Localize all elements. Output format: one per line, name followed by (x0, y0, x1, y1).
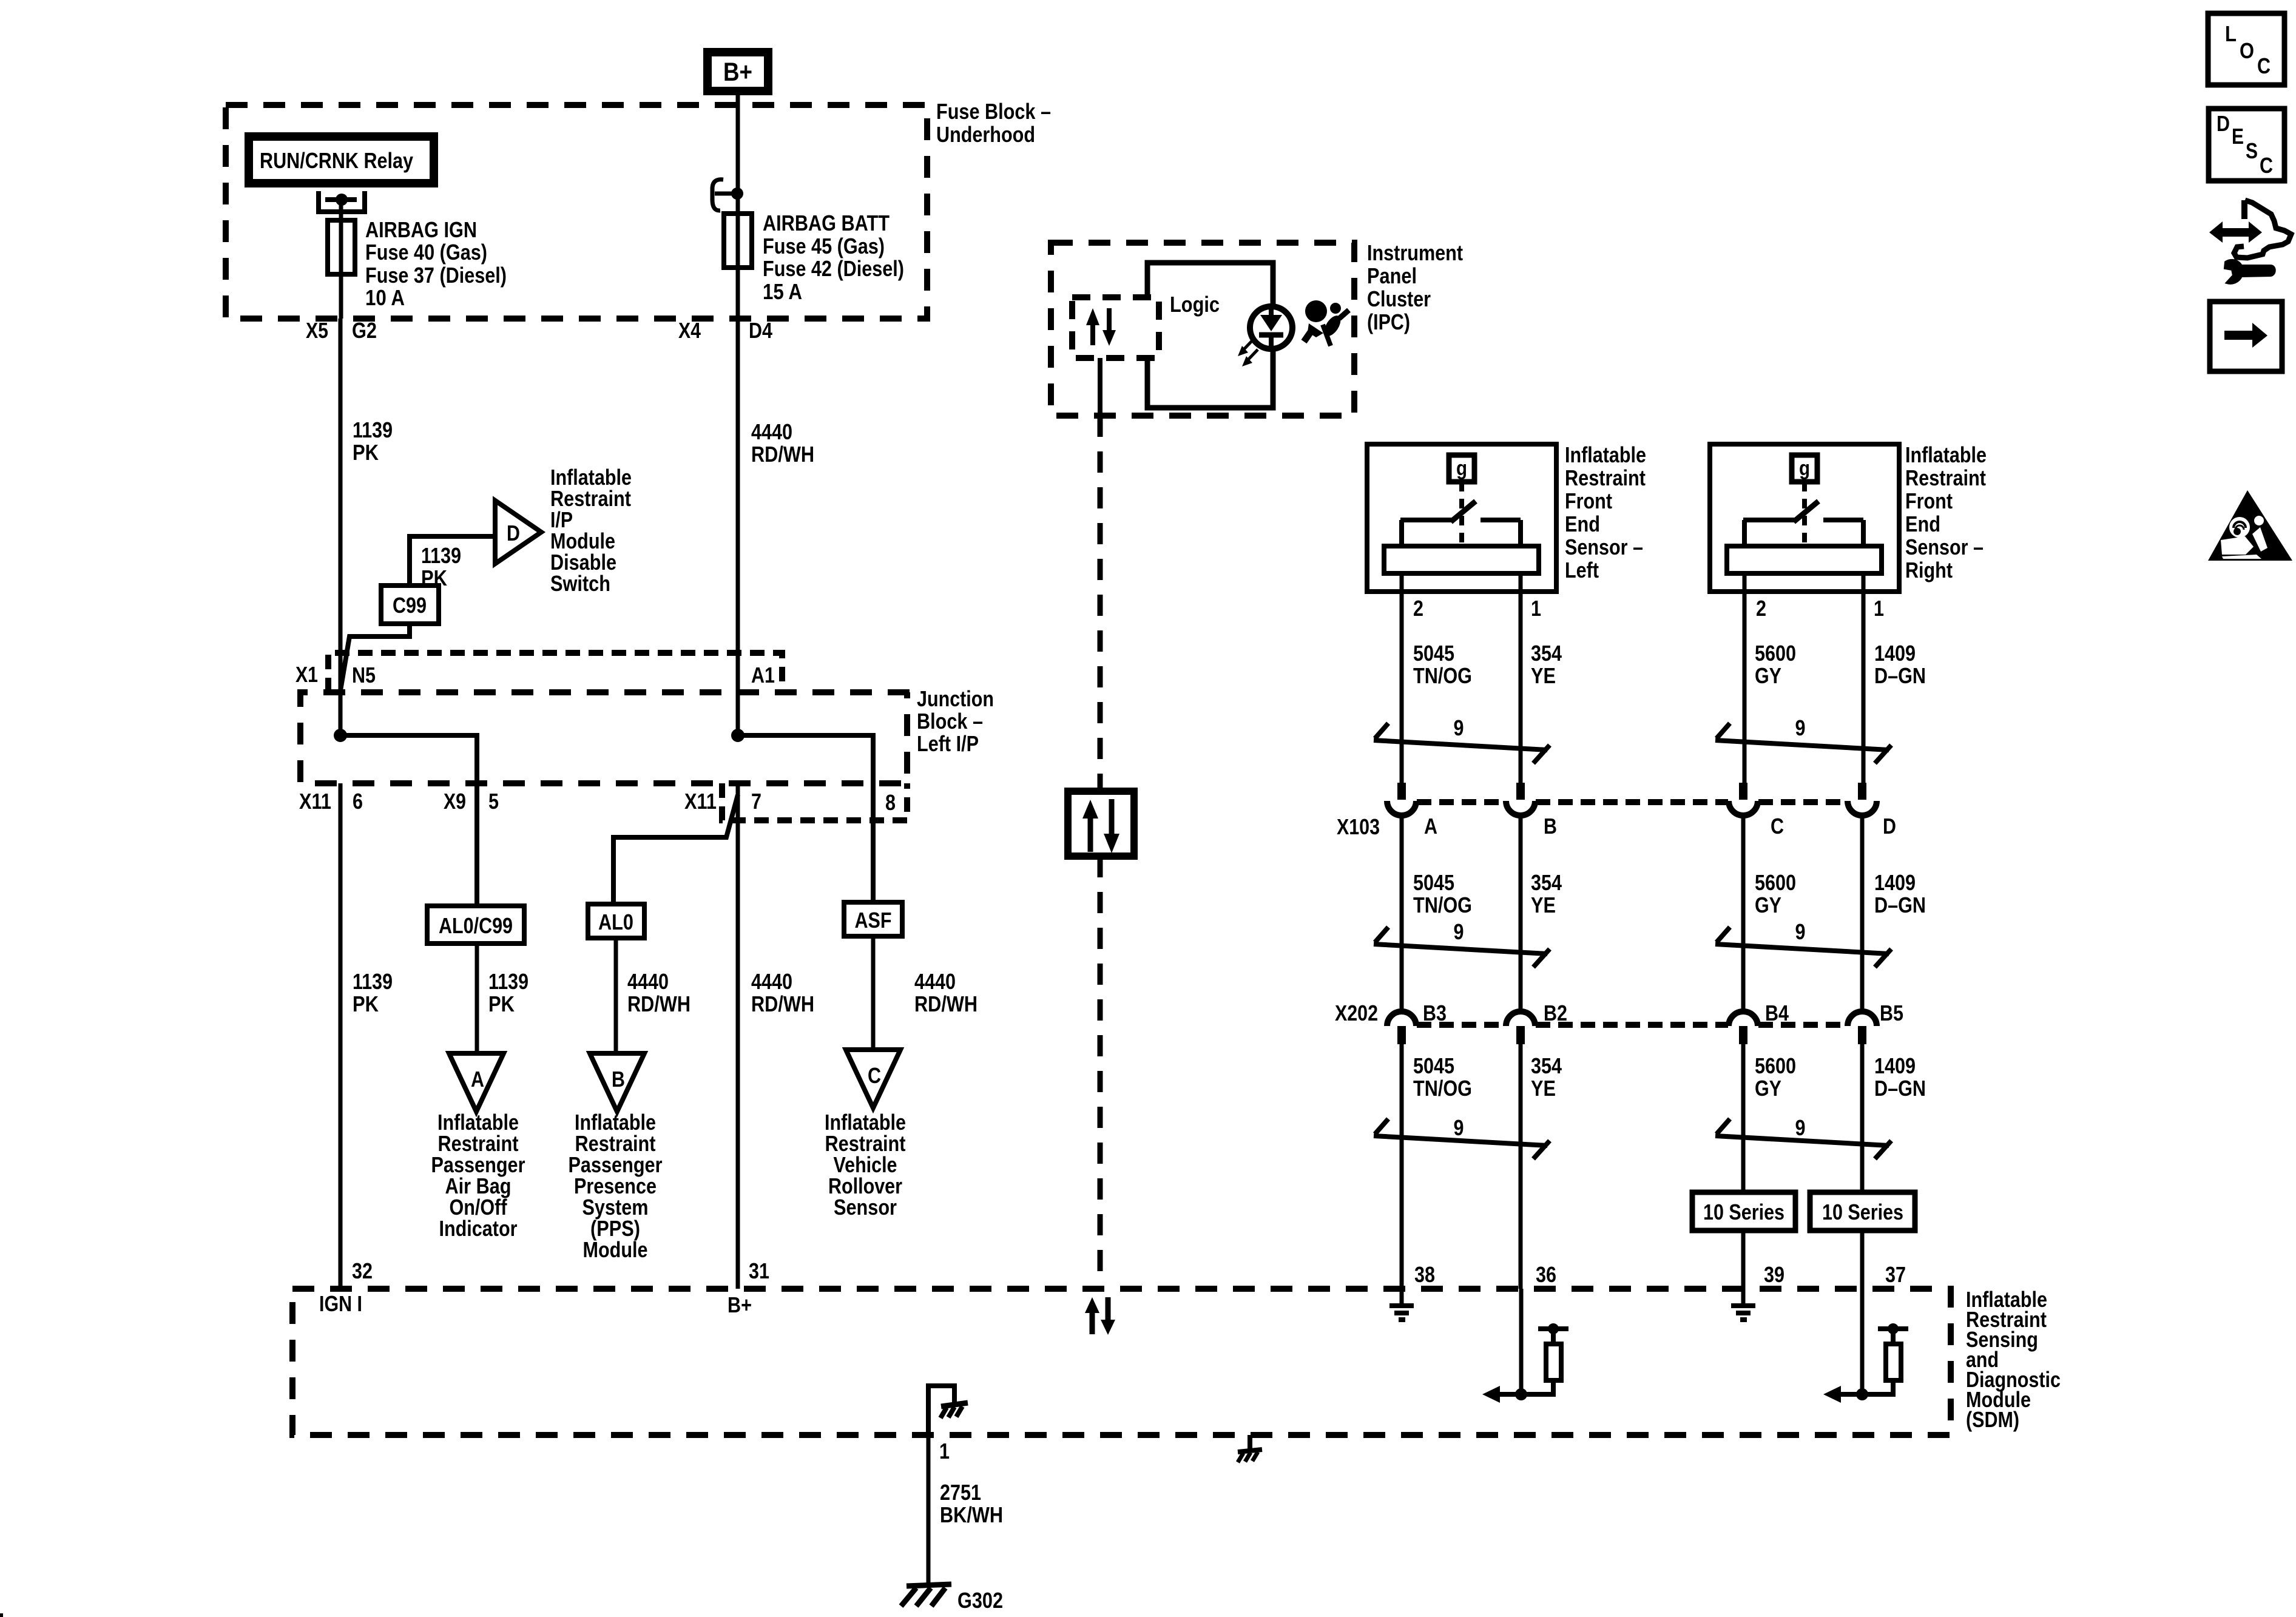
serial data connector dashed box in IPC (1072, 297, 1159, 358)
logic box (1147, 263, 1273, 408)
svg-text:Fuse 40 (Gas): Fuse 40 (Gas) (365, 240, 487, 265)
wire: fuse to connector X4 D4 (736, 268, 740, 319)
svg-text:D: D (507, 521, 520, 545)
svg-text:C: C (2257, 53, 2271, 78)
svg-text:B4: B4 (1765, 1001, 1789, 1025)
svg-text:9: 9 (1795, 1115, 1806, 1140)
svg-text:E: E (2232, 124, 2244, 149)
wire 1409 D-GN to 10 Series connector (1860, 1043, 1865, 1192)
icon LOC box (2208, 13, 2284, 85)
wire: relay output down to fuse (339, 200, 343, 223)
LED light emission arrows (1241, 339, 1254, 353)
svg-text:X11: X11 (684, 789, 717, 814)
svg-text:GY: GY (1755, 1076, 1781, 1101)
connector triangle C (846, 1050, 900, 1108)
relay RUN/CRNK output contact symbol (319, 191, 365, 212)
svg-text:ASF: ASF (855, 908, 892, 933)
svg-text:D: D (2217, 111, 2230, 136)
svg-text:4440: 4440 (751, 969, 792, 994)
svg-text:Right: Right (1905, 558, 1953, 582)
svg-text:RUN/CRNK Relay: RUN/CRNK Relay (260, 148, 413, 173)
svg-text:5045: 5045 (1413, 1053, 1454, 1078)
svg-text:X1: X1 (295, 662, 318, 687)
wire: AL0 to triangle B (614, 938, 618, 1053)
LED airbag indicator (1250, 306, 1292, 349)
svg-text:L: L (2225, 21, 2237, 46)
svg-text:2751: 2751 (940, 1480, 981, 1505)
node: junction dot left (334, 729, 347, 742)
svg-text:Sensor: Sensor (834, 1195, 897, 1220)
wire 1409 D-GN to SDM pin 37 (1860, 1230, 1865, 1289)
svg-text:A: A (1424, 814, 1437, 839)
10 Series connector box right (1810, 1192, 1915, 1230)
svg-text:C99: C99 (393, 593, 427, 618)
fuse block underhood dashed box (226, 105, 927, 319)
connector X202 pin B3 (1387, 1011, 1416, 1026)
svg-text:B+: B+ (723, 58, 752, 87)
svg-text:C: C (2260, 153, 2273, 178)
sensor left dashed actuator link (1459, 482, 1464, 546)
wire: C99 down to main wire diagonal (340, 624, 410, 690)
svg-text:Restraint: Restraint (1905, 465, 1986, 490)
svg-text:B+: B+ (728, 1292, 752, 1317)
svg-text:AIRBAG BATT: AIRBAG BATT (763, 211, 890, 235)
svg-text:Junction: Junction (917, 686, 994, 711)
icon harness diagnostic: double arrow (2209, 221, 2262, 243)
svg-text:G302: G302 (957, 1588, 1003, 1613)
wire: fuse to connector X5 G2 (339, 220, 343, 319)
svg-text:5600: 5600 (1755, 870, 1796, 895)
connector AL0 box (588, 904, 644, 938)
svg-text:5: 5 (488, 789, 499, 814)
wire: disable switch branch horizontal (410, 536, 495, 586)
svg-text:g: g (1799, 457, 1810, 480)
wire 4440 RD/WH: X4 D4 down to junction block (736, 319, 740, 739)
wire 1139 PK: X5 G2 down to junction block (339, 319, 343, 739)
svg-text:GY: GY (1755, 893, 1781, 917)
fuse AIRBAG IGN (328, 220, 355, 274)
ground: SDM case chassis at bottom edge (1248, 1435, 1252, 1451)
svg-text:2: 2 (1413, 596, 1423, 621)
wire 5045 TN/OG to SDM pin 38 (1400, 1043, 1404, 1289)
svg-text:9: 9 (1795, 715, 1806, 740)
inflatable restraint front end sensor left box (1367, 444, 1556, 592)
twisted pair symbol left 2 (1375, 927, 1388, 942)
svg-text:8: 8 (885, 790, 896, 815)
wire 5600 GY to 10 Series connector (1741, 1043, 1746, 1192)
svg-text:1139: 1139 (353, 417, 393, 442)
svg-text:Sensor –: Sensor – (1905, 535, 1984, 559)
svg-text:4440: 4440 (751, 419, 792, 444)
circuit breaker hook symbol (712, 180, 723, 211)
twisted pair symbol right 2 (1717, 927, 1730, 942)
serial data symbol box mid (1068, 791, 1134, 856)
serial data arrows in IPC (1090, 325, 1095, 345)
svg-text:B3: B3 (1423, 1001, 1447, 1025)
connector X202 pin B5 (1848, 1011, 1877, 1026)
svg-text:Left I/P: Left I/P (917, 731, 979, 756)
icon harness diagnostic: wrench (2225, 260, 2275, 283)
svg-text:B2: B2 (1544, 1001, 1567, 1025)
svg-text:D–GN: D–GN (1874, 1076, 1926, 1101)
svg-text:RD/WH: RD/WH (751, 442, 814, 467)
relay RUN/CRNK label box (249, 137, 434, 183)
IPC dashed box (1051, 243, 1354, 416)
svg-text:N5: N5 (352, 663, 376, 687)
svg-text:C: C (1771, 814, 1784, 839)
twisted pair symbol right 1 (1717, 723, 1730, 738)
icon right arrow box (2210, 302, 2282, 371)
wire: branch to AL0 (613, 795, 738, 904)
svg-text:32: 32 (352, 1258, 373, 1283)
svg-text:1409: 1409 (1874, 641, 1916, 666)
connector X1 dotted box (328, 653, 782, 692)
svg-text:D4: D4 (749, 318, 772, 343)
ground: earth symbol at pin 38 (1400, 1289, 1404, 1305)
connector X103 pin C (1739, 783, 1747, 800)
svg-text:354: 354 (1531, 1053, 1562, 1078)
svg-text:5600: 5600 (1755, 641, 1796, 666)
svg-text:S: S (2246, 138, 2258, 163)
wire: branch to X9 pin 5 (340, 735, 477, 906)
svg-text:1409: 1409 (1874, 1053, 1916, 1078)
svg-text:X103: X103 (1337, 814, 1380, 839)
svg-text:C: C (868, 1063, 881, 1088)
svg-text:g: g (1456, 457, 1467, 480)
svg-text:D: D (1883, 814, 1896, 839)
sensor left g terminal (1449, 455, 1474, 482)
ground: SDM internal chassis from pin 1 (928, 1386, 954, 1432)
wire: B+ down to breaker node (736, 91, 740, 319)
sensor left switch (1400, 518, 1451, 522)
svg-text:TN/OG: TN/OG (1413, 663, 1472, 688)
connector triangle B (590, 1053, 644, 1112)
twisted pair symbol right 3 (1717, 1119, 1730, 1134)
connector X202 pin B4 (1729, 1011, 1758, 1026)
svg-text:2: 2 (1756, 596, 1766, 621)
node: junction dot right (731, 729, 745, 742)
wire 2751 BK/WH to G302 (927, 1435, 931, 1586)
svg-text:Front: Front (1905, 488, 1953, 513)
svg-text:Inflatable: Inflatable (1905, 442, 1987, 467)
sensor right pin wires (1743, 573, 1747, 783)
svg-text:Panel: Panel (1367, 263, 1417, 288)
ground: earth symbol at pin 39 (1741, 1289, 1746, 1305)
svg-text:38: 38 (1414, 1262, 1435, 1287)
squib loop at pin 37 (1860, 1289, 1865, 1394)
connector triangle A (449, 1053, 504, 1112)
svg-text:Fuse 37 (Diesel): Fuse 37 (Diesel) (365, 263, 507, 288)
wire 5600 GY to SDM pin 39 (1741, 1230, 1746, 1289)
ground G302 (907, 1584, 951, 1586)
airbag telltale icon (1305, 300, 1327, 322)
svg-text:37: 37 (1885, 1262, 1906, 1287)
svg-text:B5: B5 (1880, 1001, 1903, 1025)
svg-text:IGN I: IGN I (319, 1291, 362, 1316)
twisted pair symbol left 1 (1375, 723, 1388, 738)
connector triangle D to disable switch (495, 501, 541, 564)
page corner speck (0, 1613, 3, 1617)
serial data arrows inside SDM (1090, 1312, 1095, 1334)
svg-text:1: 1 (939, 1439, 950, 1463)
twisted pair symbol left 3 (1375, 1119, 1388, 1134)
sensor left pin wires (1400, 573, 1404, 783)
icon airbag warning triangle (2208, 490, 2292, 561)
sensor right g terminal (1792, 455, 1817, 482)
svg-text:PK: PK (488, 991, 515, 1016)
svg-text:AL0: AL0 (598, 910, 633, 934)
svg-text:(IPC): (IPC) (1367, 309, 1410, 334)
svg-text:5600: 5600 (1755, 1053, 1796, 1078)
svg-text:7: 7 (751, 789, 761, 814)
svg-text:10 Series: 10 Series (1822, 1200, 1903, 1224)
connector AL0/C99 box (427, 906, 524, 944)
svg-text:X9: X9 (444, 789, 466, 814)
svg-text:(SDM): (SDM) (1966, 1407, 2019, 1432)
svg-text:PK: PK (353, 991, 379, 1016)
svg-text:10 Series: 10 Series (1703, 1200, 1784, 1224)
svg-text:Fuse 45 (Gas): Fuse 45 (Gas) (763, 234, 885, 258)
svg-text:D–GN: D–GN (1874, 893, 1926, 917)
connector X202 dashed line (1417, 1022, 1505, 1028)
wire: class 2 serial data to SDM (dashed) (1098, 856, 1103, 1289)
svg-text:1: 1 (1874, 596, 1884, 621)
connector X103 pin D (1858, 783, 1866, 800)
fuse AIRBAG BATT (724, 214, 752, 268)
svg-text:BK/WH: BK/WH (940, 1502, 1003, 1527)
connector X103 pin B (1516, 783, 1525, 800)
wire: AL0/C99 to triangle A (475, 944, 479, 1053)
svg-text:Sensor –: Sensor – (1565, 535, 1643, 559)
svg-text:G2: G2 (352, 318, 377, 343)
svg-text:Front: Front (1565, 488, 1612, 513)
sensor right switch (1743, 518, 1794, 522)
svg-text:Fuse Block –: Fuse Block – (936, 99, 1051, 124)
wire: branch to pin 8 (738, 735, 873, 902)
svg-text:10 A: 10 A (365, 285, 405, 310)
SDM dashed box (292, 1289, 1951, 1435)
svg-text:A: A (471, 1067, 484, 1092)
connector X103 dashed line (1417, 799, 1505, 805)
svg-text:A1: A1 (751, 663, 775, 687)
svg-text:End: End (1905, 511, 1940, 536)
wire: X11 pin 7 down to SDM pin 31 (736, 783, 740, 1289)
svg-text:Instrument: Instrument (1367, 240, 1463, 265)
svg-text:15 A: 15 A (763, 279, 802, 304)
svg-text:TN/OG: TN/OG (1413, 893, 1472, 917)
svg-text:1139: 1139 (353, 969, 393, 994)
icon DESC box (2209, 109, 2284, 181)
svg-text:Logic: Logic (1170, 292, 1220, 317)
wire: class 2 serial data from IPC (solid then dashed) (1098, 358, 1102, 416)
svg-text:Indicator: Indicator (439, 1216, 518, 1241)
svg-text:GY: GY (1755, 663, 1781, 688)
svg-text:Cluster: Cluster (1367, 286, 1431, 311)
svg-text:9: 9 (1454, 919, 1464, 944)
svg-text:YE: YE (1531, 893, 1556, 917)
svg-text:354: 354 (1531, 641, 1562, 666)
svg-text:Inflatable: Inflatable (1565, 442, 1646, 467)
svg-text:5045: 5045 (1413, 641, 1454, 666)
wire: ASF to triangle C (871, 936, 876, 1050)
svg-text:Fuse 42 (Diesel): Fuse 42 (Diesel) (763, 256, 904, 281)
svg-text:X5: X5 (306, 318, 328, 343)
svg-text:4440: 4440 (914, 969, 956, 994)
svg-text:AIRBAG IGN: AIRBAG IGN (365, 217, 477, 242)
svg-text:YE: YE (1531, 1076, 1556, 1101)
connector X202 pin B2 (1506, 1011, 1535, 1026)
svg-text:B: B (612, 1067, 625, 1092)
connector ASF box (844, 902, 902, 936)
squib loop at pin 36 (1519, 1289, 1524, 1394)
svg-text:RD/WH: RD/WH (627, 991, 690, 1016)
svg-text:RD/WH: RD/WH (914, 991, 977, 1016)
connector X11 dotted box right (722, 783, 907, 820)
svg-text:Underhood: Underhood (936, 122, 1035, 147)
svg-text:6: 6 (353, 789, 363, 814)
sensor right dashed actuator link (1802, 482, 1807, 546)
B+ terminal (707, 52, 768, 91)
svg-text:X4: X4 (678, 318, 701, 343)
svg-text:Module: Module (583, 1237, 648, 1262)
svg-text:39: 39 (1764, 1262, 1784, 1287)
connector X103 pin A (1397, 783, 1406, 800)
connector C99 box (381, 586, 439, 624)
svg-text:TN/OG: TN/OG (1413, 1076, 1472, 1101)
wire 354 YE to SDM pin 36 (1519, 1043, 1523, 1289)
icon harness diagnostic: connector outline (2234, 200, 2291, 258)
svg-text:Switch: Switch (550, 571, 610, 596)
node: breaker junction dot (731, 187, 743, 200)
svg-text:1409: 1409 (1874, 870, 1916, 895)
svg-text:1139: 1139 (421, 543, 461, 568)
svg-text:RD/WH: RD/WH (751, 991, 814, 1016)
svg-text:Block –: Block – (917, 709, 983, 734)
svg-text:B: B (1544, 814, 1557, 839)
inflatable restraint front end sensor right box (1710, 444, 1899, 592)
svg-text:354: 354 (1531, 870, 1562, 895)
wire: X11 pin 6 down to SDM pin 32 (339, 783, 343, 1289)
svg-text:PK: PK (353, 440, 379, 465)
svg-text:YE: YE (1531, 663, 1556, 688)
svg-text:Left: Left (1565, 558, 1599, 582)
svg-text:5045: 5045 (1413, 870, 1454, 895)
svg-text:X11: X11 (299, 789, 331, 814)
svg-text:9: 9 (1454, 1115, 1464, 1140)
svg-text:36: 36 (1536, 1262, 1556, 1287)
svg-text:9: 9 (1454, 715, 1464, 740)
svg-text:O: O (2240, 38, 2254, 63)
svg-text:4440: 4440 (627, 969, 669, 994)
svg-text:D–GN: D–GN (1874, 663, 1926, 688)
svg-text:1139: 1139 (488, 969, 528, 994)
svg-text:9: 9 (1795, 919, 1806, 944)
svg-text:1: 1 (1531, 596, 1541, 621)
junction block dashed box (300, 692, 910, 783)
10 Series connector box left (1692, 1192, 1795, 1230)
svg-text:X202: X202 (1335, 1001, 1378, 1025)
svg-text:Restraint: Restraint (1565, 465, 1646, 490)
svg-text:31: 31 (749, 1258, 769, 1283)
svg-text:End: End (1565, 511, 1600, 536)
svg-text:AL0/C99: AL0/C99 (439, 913, 513, 938)
sensor left element (1384, 546, 1539, 573)
sensor right element (1727, 546, 1882, 573)
